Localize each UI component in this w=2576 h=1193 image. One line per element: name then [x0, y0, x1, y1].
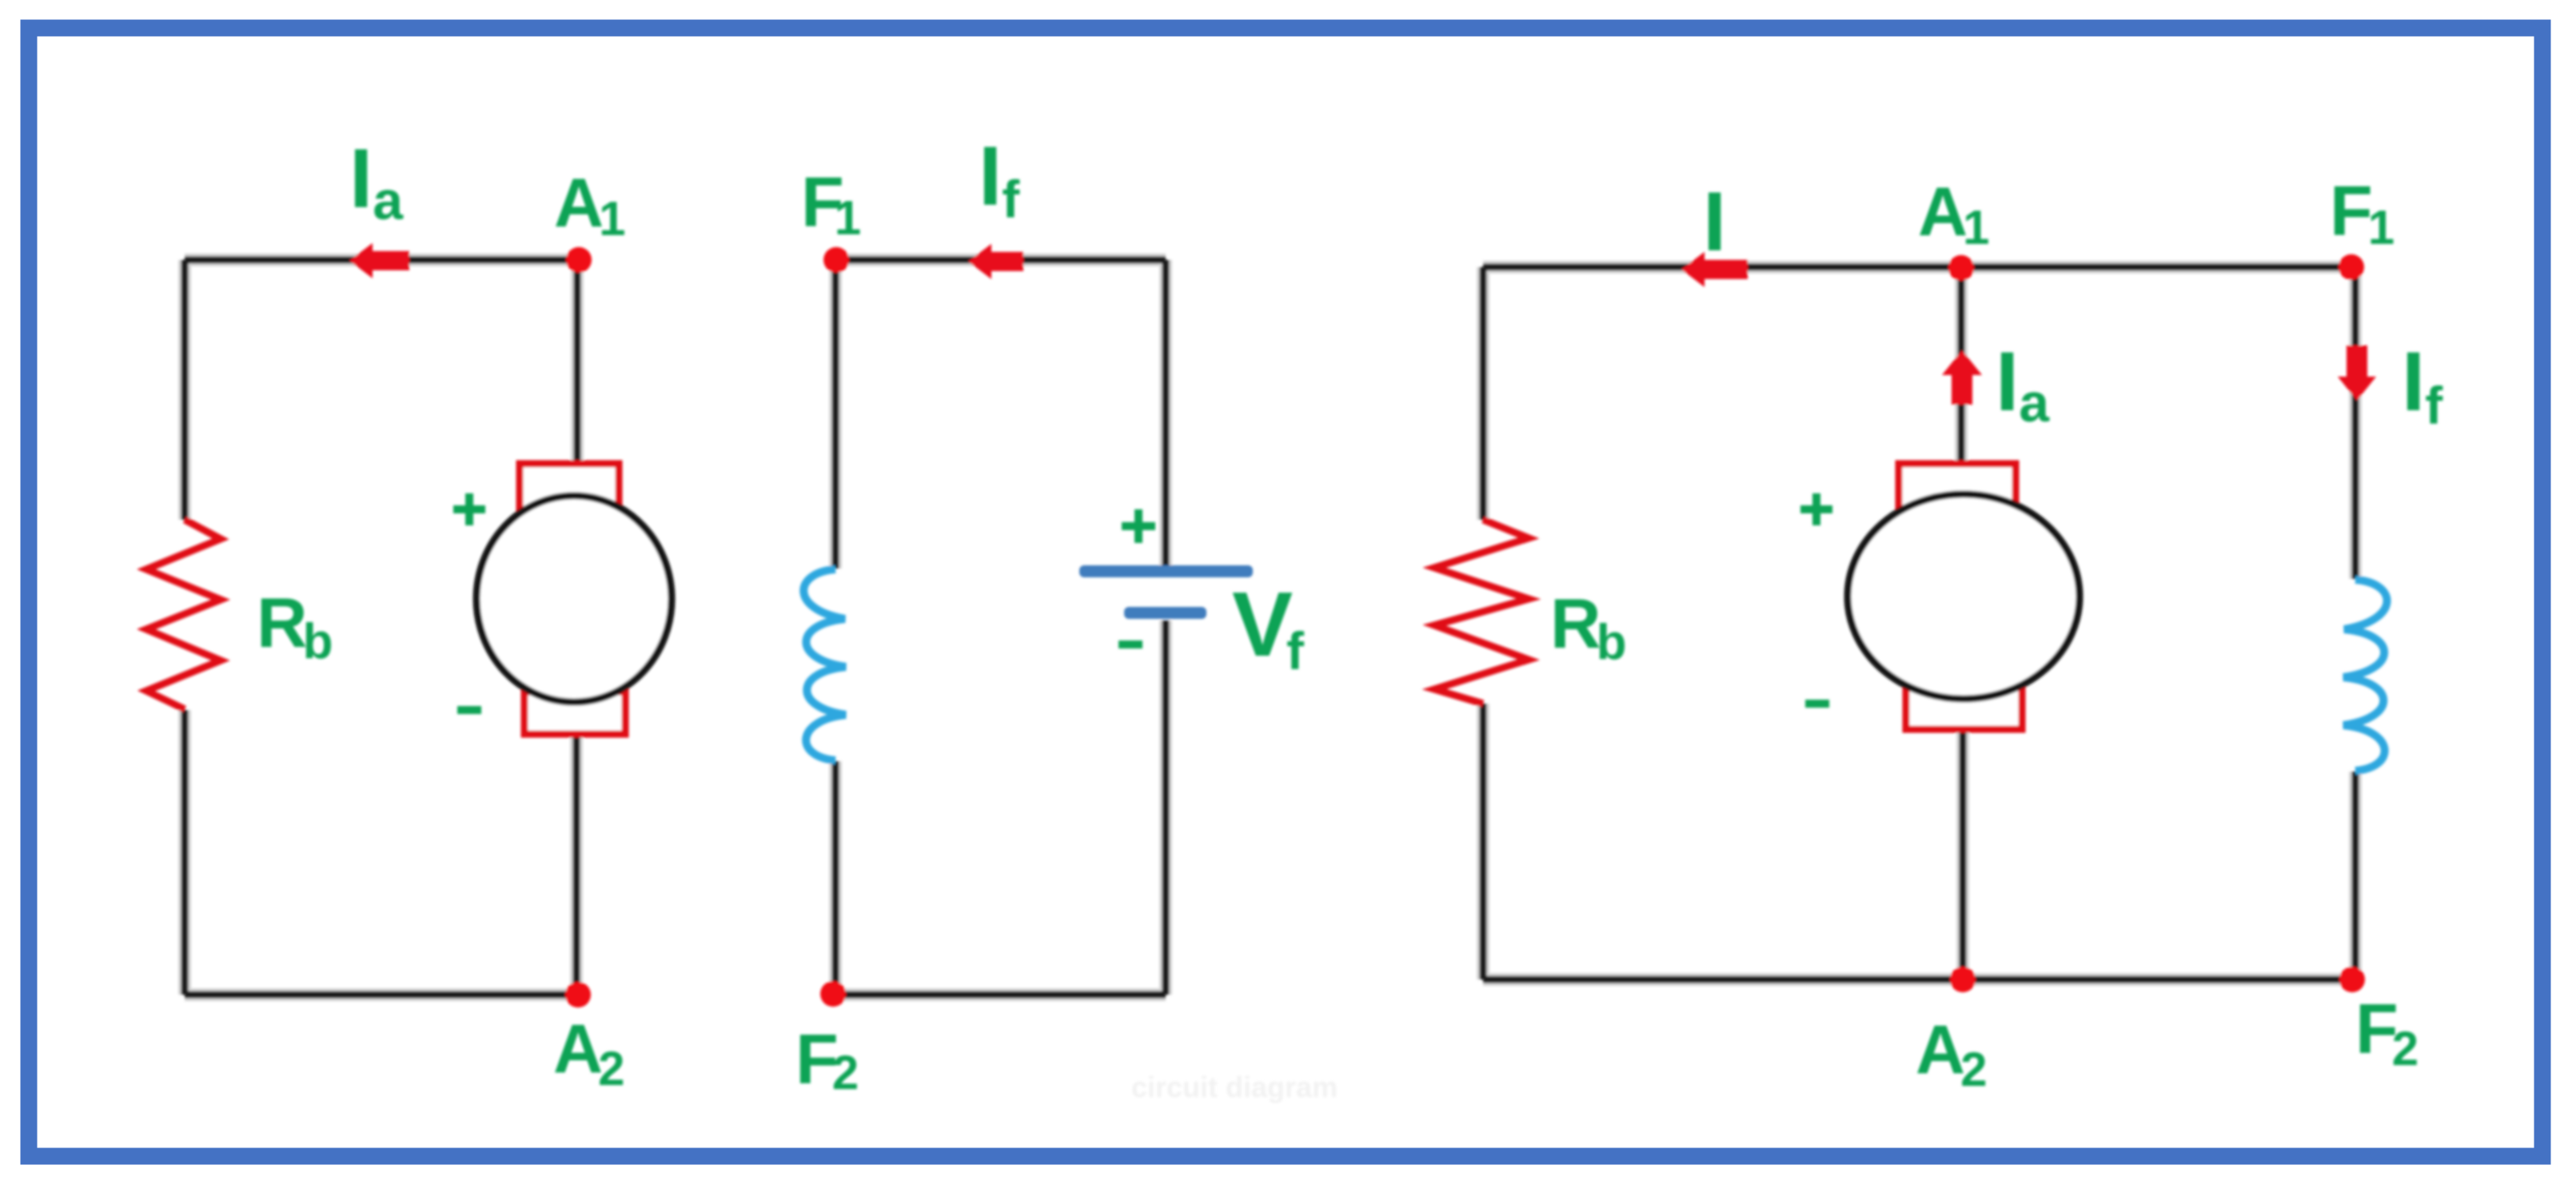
wire: field branch lower (field coil to F2, right circuit)	[2352, 772, 2359, 980]
motor M (right circuit): brushes and armature circle	[1848, 464, 2080, 729]
current arrow I (right circuit top wire)	[1681, 252, 1748, 287]
wire: middle circuit top segment	[836, 257, 1166, 264]
label + (motor positive, right circuit)	[1800, 493, 1832, 525]
resistor Rb (left circuit)	[146, 520, 221, 709]
resistor Rb (right circuit)	[1434, 520, 1529, 704]
wire: armature branch lower (motor to A2)	[573, 734, 580, 995]
wire: left circuit bottom segment	[185, 992, 578, 999]
wire: middle circuit right side upper (to battery Vf)	[1162, 260, 1170, 565]
wire halo: right circuit loop	[1483, 267, 2355, 980]
node F1 (right circuit)	[2339, 254, 2364, 280]
wire: left circuit left side lower (from resistor Rb)	[181, 710, 189, 995]
wire halo: left circuit loop	[185, 260, 579, 995]
current arrow If (field branch, pointing down)	[2338, 345, 2376, 401]
wire: middle circuit left side upper (F1 to field coil)	[832, 260, 839, 569]
wire: armature branch upper (A1 to motor)	[574, 260, 581, 464]
current arrow Ia (armature branch, pointing up)	[1942, 350, 1982, 405]
current arrow If (middle circuit top wire)	[968, 244, 1023, 279]
node A1 (left circuit)	[566, 247, 592, 273]
node A2 (left circuit)	[565, 982, 591, 1007]
wire halo: middle circuit loop	[833, 260, 1166, 995]
label - (motor negative, right circuit)	[1805, 700, 1829, 708]
inductor field winding (right circuit)	[2343, 580, 2387, 771]
wire: middle circuit right side lower (battery Vf to bottom)	[1162, 620, 1170, 995]
wire: right circuit left side upper (to resistor Rb)	[1480, 267, 1487, 520]
node F1 (middle circuit)	[823, 247, 849, 273]
wire: armature branch upper (A1 to motor, right circuit)	[1958, 268, 1965, 464]
svg-text:circuit diagram: circuit diagram	[1131, 1071, 1338, 1103]
wire: armature branch lower (motor to A2, right circuit)	[1960, 729, 1967, 980]
wire: left circuit top segment	[185, 257, 579, 264]
label - (battery negative)	[1119, 640, 1142, 648]
wire: right circuit left side lower (from resistor Rb)	[1480, 704, 1487, 980]
battery Vf (middle circuit): short negative plate	[1124, 607, 1206, 619]
label + (battery positive)	[1122, 509, 1155, 543]
label - (motor negative, left circuit)	[457, 706, 481, 714]
wire: field branch upper (F1 to field coil, right circuit)	[2352, 267, 2359, 579]
wire: middle circuit bottom segment	[833, 992, 1166, 999]
svg-text:I: I	[1703, 175, 1726, 269]
battery Vf (middle circuit): long positive plate	[1079, 565, 1253, 577]
current arrow Ia (left circuit top wire)	[349, 243, 409, 278]
wire: right circuit bottom segment	[1483, 976, 2354, 984]
motor M (left circuit): brushes and armature circle	[477, 464, 672, 734]
node F2 (middle circuit)	[820, 981, 846, 1007]
label + (motor positive, left circuit)	[453, 493, 485, 525]
node A2 (right circuit)	[1950, 967, 1976, 992]
node F2 (right circuit)	[2339, 967, 2365, 992]
node A1 (right circuit)	[1948, 255, 1974, 281]
inductor field winding (middle circuit)	[804, 569, 846, 760]
wire: right circuit top segment (supply net)	[1483, 264, 2354, 271]
wire: left circuit left side upper (to resistor Rb)	[181, 260, 189, 520]
wire: middle circuit left side lower (field coil to F2)	[832, 761, 839, 995]
